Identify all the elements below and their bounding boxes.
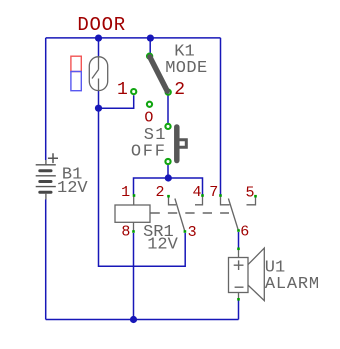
magnet (red/blue) next to reed switch — [71, 56, 81, 71]
battery B1 positive stub — [45, 160, 47, 164]
junction node reed bottom — [95, 105, 102, 112]
pushbutton S1 bottom pin ring — [165, 159, 170, 164]
wire K1 pin 2 to S1 top — [167, 94, 169, 124]
relay pin tip 7 — [219, 194, 222, 197]
relay contact blade 7-6 — [228, 199, 238, 231]
K1 pivot pin ring — [147, 54, 152, 59]
svg-text:5: 5 — [246, 184, 255, 201]
svg-text:2: 2 — [156, 184, 165, 201]
junction node below S1 — [165, 174, 172, 181]
speaker U1 plus sign — [234, 260, 244, 270]
svg-text:6: 6 — [240, 224, 249, 241]
svg-text:12V: 12V — [147, 236, 178, 255]
relay pin tip 8 — [132, 230, 135, 233]
relay pin 7 hook — [221, 197, 230, 205]
speaker U1 horn — [248, 248, 264, 301]
pushbutton S1 top pin ring — [165, 124, 170, 129]
reed switch contacts — [92, 57, 99, 91]
speaker U1 plus pin — [237, 248, 240, 251]
junction node bottom rail / relay pin 8 — [130, 316, 137, 323]
pushbutton S1 handle — [180, 140, 187, 148]
wire reed switch bottom to node — [98, 91, 100, 109]
relay pin tip 3 — [184, 230, 187, 233]
wire relay pin 6 to speaker plus — [238, 232, 240, 248]
svg-text:DOOR: DOOR — [77, 14, 125, 36]
wire left rail upper (to battery +) — [45, 38, 47, 160]
junction node DOOR at top rail / K1 — [147, 35, 154, 42]
relay SR1 coil pin 8 stub — [133, 222, 135, 230]
wire node to K1 pin 1 — [99, 95, 134, 108]
svg-text:7: 7 — [209, 184, 218, 201]
battery B1 plates — [36, 165, 56, 187]
wire junction to relay pin 4 — [168, 178, 203, 195]
relay SR1 coil pin 1 stub — [133, 197, 135, 206]
wire node down to relay pin 3 — [99, 108, 186, 266]
wire top rail to relay pin 7 — [220, 38, 222, 195]
svg-text:O: O — [144, 109, 153, 126]
speaker U1 box — [229, 258, 249, 293]
K1 pin position 0 ring — [147, 102, 152, 107]
wire junction to relay pin 1 — [134, 178, 169, 195]
K1 pin position 1 ring — [131, 89, 136, 94]
reed switch capsule (door sensor) — [89, 57, 107, 91]
svg-text:1: 1 — [121, 184, 130, 201]
wire speaker minus to bottom rail — [238, 301, 240, 320]
relay pin 4 hook — [195, 197, 203, 205]
speaker U1 minus stub — [238, 293, 240, 299]
speaker U1 minus pin — [237, 298, 240, 301]
wire K1 common stub — [149, 38, 151, 55]
speaker U1 plus stub — [238, 250, 240, 258]
relay pin 5 hook — [247, 197, 256, 205]
relay pin tip 2 — [167, 195, 170, 198]
relay pin 2 hook — [169, 197, 177, 205]
svg-text:2: 2 — [174, 80, 185, 100]
battery B1 plus sign — [48, 153, 58, 163]
svg-text:3: 3 — [188, 224, 197, 241]
relay pin tip 4 — [201, 194, 204, 197]
wire reed switch top stub — [98, 38, 100, 57]
wire bottom rail — [46, 319, 239, 321]
svg-text:MODE: MODE — [165, 59, 207, 78]
svg-text:8: 8 — [121, 224, 130, 241]
relay contact blade 2-3 — [175, 199, 185, 232]
relay SR1 dashed actuation line — [151, 212, 230, 214]
wire S1 bottom to junction — [167, 165, 169, 178]
junction node at top rail / reed switch — [95, 35, 102, 42]
wire relay pin 8 to bottom rail — [133, 233, 135, 320]
wire top rail — [46, 37, 221, 39]
svg-text:OFF: OFF — [131, 143, 167, 162]
svg-text:ALARM: ALARM — [265, 275, 320, 294]
svg-text:4: 4 — [193, 184, 202, 201]
speaker U1 minus sign — [235, 286, 244, 288]
pushbutton S1 body bar — [174, 127, 180, 161]
battery B1 negative stub — [45, 194, 47, 200]
rotary switch K1 bar — [150, 57, 167, 91]
K1 pin position 2 ring — [166, 90, 171, 95]
relay SR1 coil — [115, 205, 150, 222]
svg-text:12V: 12V — [57, 179, 88, 198]
relay pin tip 1 — [133, 194, 136, 197]
wire left rail lower (battery - to bottom) — [45, 200, 47, 320]
relay pin tip 5 — [254, 195, 257, 198]
svg-text:1: 1 — [117, 80, 128, 100]
relay pin tip 6 — [237, 229, 240, 232]
